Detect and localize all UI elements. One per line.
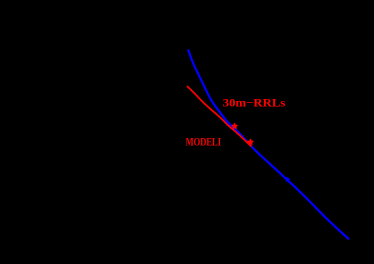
blue model curve (188, 49, 349, 239)
red star marker 2 (248, 140, 253, 144)
blue star marker on curve (285, 177, 289, 181)
svg-text:30m−RRLs: 30m−RRLs (223, 98, 286, 110)
red star marker 1 (232, 124, 237, 128)
svg-text:MODELI: MODELI (186, 137, 222, 149)
red fit line (187, 86, 252, 147)
